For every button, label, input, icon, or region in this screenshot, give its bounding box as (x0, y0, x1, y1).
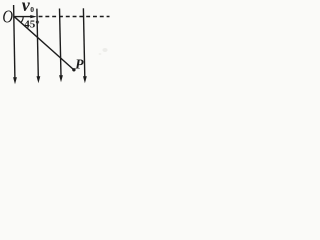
svg-text:45°: 45° (24, 18, 39, 30)
field line 2 arrowhead (37, 76, 41, 83)
v0 velocity arrow (14, 16, 31, 18)
field line 3 arrowhead (59, 75, 63, 82)
field line 4 (83, 8, 84, 77)
field line 1 (14, 5, 15, 78)
scan smudge (102, 48, 107, 52)
point P dot (72, 68, 75, 71)
svg-text:P: P (75, 56, 84, 71)
trajectory line O to P (14, 17, 73, 70)
svg-text:O: O (2, 6, 13, 27)
field line 2 (37, 9, 38, 77)
field line 4 arrowhead (83, 76, 87, 83)
v0 arrowhead (30, 15, 37, 18)
45 degree arc (21, 17, 23, 23)
field line 1 arrowhead (13, 77, 17, 84)
svg-text:0: 0 (30, 5, 34, 14)
field line 3 (60, 9, 62, 77)
dashed horizontal line (39, 16, 110, 18)
